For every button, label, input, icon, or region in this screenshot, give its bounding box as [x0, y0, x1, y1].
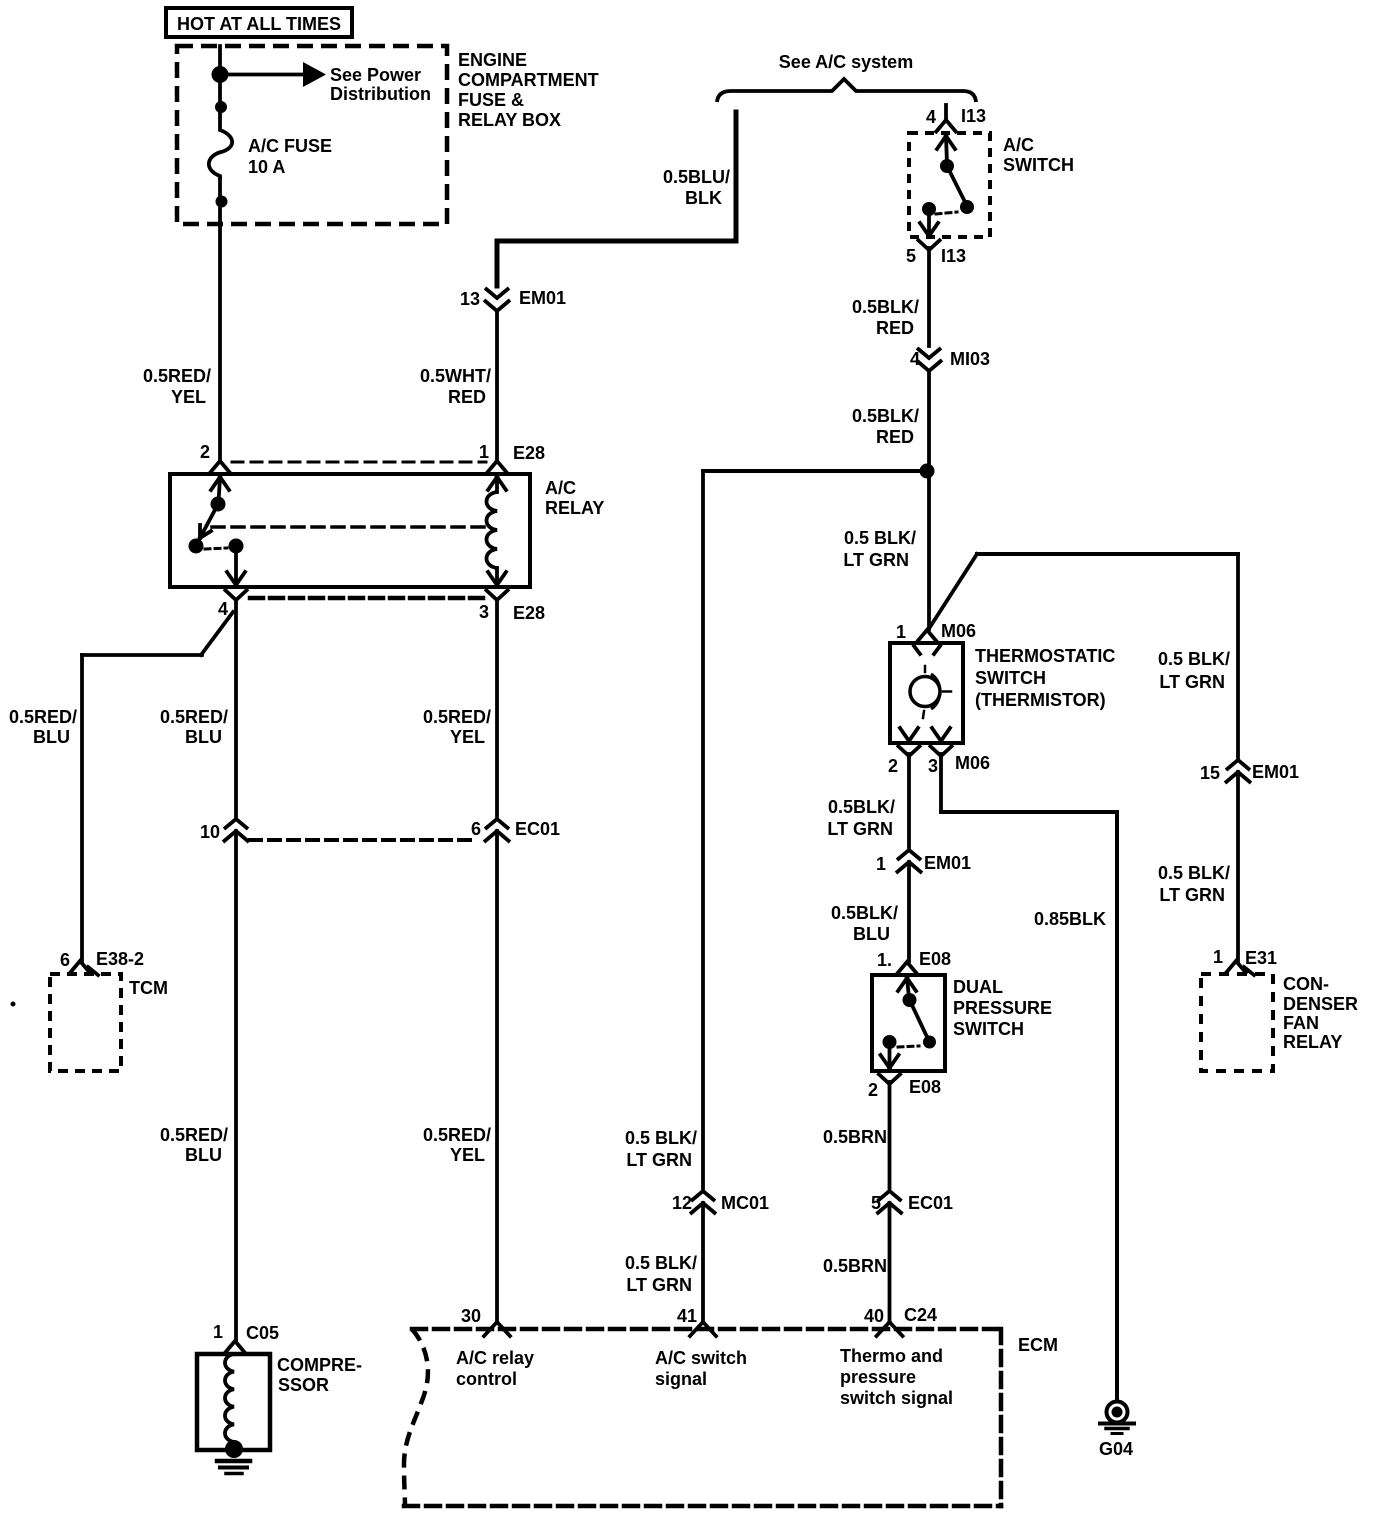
svg-text:30: 30 [461, 1306, 481, 1326]
svg-text:0.5BRN: 0.5BRN [823, 1256, 887, 1276]
svg-text:YEL: YEL [171, 387, 206, 407]
svg-text:4: 4 [218, 599, 228, 619]
svg-text:G04: G04 [1099, 1439, 1133, 1459]
svg-text:0.5 BLK/: 0.5 BLK/ [1158, 863, 1230, 883]
svg-text:0.5RED/: 0.5RED/ [423, 1125, 491, 1145]
svg-text:15: 15 [1200, 763, 1220, 783]
svg-text:E31: E31 [1245, 948, 1277, 968]
relay contact dashed link [205, 548, 227, 549]
svg-text:0.5BLK/: 0.5BLK/ [852, 297, 919, 317]
dashed line pin4-pin3 E28 [250, 596, 484, 601]
label A/C relay control [456, 1348, 534, 1389]
dual pressure switch output dot [883, 1035, 897, 1049]
connector EM01 pin 15 [1200, 760, 1299, 783]
svg-text:MC01: MC01 [721, 1193, 769, 1213]
relay mid dashed line [212, 525, 490, 529]
svg-text:0.5 BLK/: 0.5 BLK/ [1158, 649, 1230, 669]
wire: EC01-6 down to ECM pin 30 [495, 831, 499, 1322]
dashed line pin2-pin1 E28 [232, 461, 486, 464]
svg-text:40: 40 [864, 1306, 884, 1326]
A/C switch contact dashed link [936, 212, 957, 214]
connector EM01 pin 1 [876, 850, 971, 874]
thermostatic switch pin 3 exit [929, 728, 953, 756]
wire: EM01-15 down to E31 [1236, 772, 1240, 961]
svg-text:0.5 BLK/: 0.5 BLK/ [844, 528, 916, 548]
wire: contact to pin 4 [227, 548, 245, 585]
wire: 0.85BLK down to G04 [1115, 812, 1119, 1400]
svg-text:1: 1 [213, 1322, 223, 1342]
connector I13 pin 4 [926, 106, 986, 133]
wire: I13-5 down to MI03 [927, 248, 931, 346]
label wire 0.5BRN (upper) [823, 1127, 887, 1147]
svg-text:2: 2 [200, 442, 210, 462]
wire: bracket to A/C switch pin 4 [944, 105, 948, 121]
svg-text:0.5BLK/: 0.5BLK/ [852, 406, 919, 426]
engine compartment fuse & relay box (dashed) [177, 46, 599, 224]
TCM box (dashed) [50, 974, 168, 1071]
thermostatic switch box [890, 643, 1115, 743]
svg-text:0.5BLK/: 0.5BLK/ [828, 797, 895, 817]
label wire 0.5RED/BLU (TCM branch) [9, 707, 77, 747]
wire: EM01-1 down to E08 [907, 862, 911, 961]
svg-text:EC01: EC01 [908, 1193, 953, 1213]
connector E28 pin 1 (relay) [479, 442, 545, 474]
svg-text:LT GRN: LT GRN [1159, 885, 1225, 905]
svg-text:A/C: A/C [545, 478, 576, 498]
svg-text:4: 4 [926, 107, 936, 127]
svg-text:LT GRN: LT GRN [827, 819, 893, 839]
relay contact fixed dot [189, 539, 204, 554]
A/C switch box (dashed) [909, 133, 1074, 237]
svg-text:1: 1 [479, 442, 489, 462]
label wire 0.5BRN (lower) [823, 1256, 887, 1276]
svg-text:RED: RED [876, 318, 914, 338]
stray mark [11, 1002, 16, 1007]
A/C switch output dot [922, 202, 936, 216]
svg-text:0.85BLK: 0.85BLK [1034, 909, 1106, 929]
wire: hot feed into fuse box [218, 46, 222, 112]
svg-text:LT GRN: LT GRN [626, 1275, 692, 1295]
connector E31 pin 1 [1213, 947, 1277, 975]
label wire 0.5 BLK/LT GRN (CFR upper) [1158, 649, 1230, 692]
connector MC01 pin 12 [672, 1191, 769, 1214]
svg-text:E28: E28 [513, 603, 545, 623]
relay contact arm [200, 477, 229, 538]
node: junction dot above fuse [215, 101, 227, 113]
wire: M06-1 diagonal up-right [930, 554, 977, 627]
svg-text:RELAY: RELAY [545, 498, 604, 518]
label wire 0.85BLK [1034, 909, 1106, 929]
label wire 0.5 BLK/LT GRN (MC01 lower) [625, 1253, 697, 1295]
svg-text:0.5 BLK/: 0.5 BLK/ [625, 1128, 697, 1148]
wire: heavy link from A/C system bracket [497, 112, 736, 286]
relay box A/C RELAY [170, 474, 604, 587]
svg-text:2: 2 [868, 1080, 878, 1100]
label wire 0.5 BLK/LT GRN (to M06) [843, 528, 916, 570]
connector EC01 pin 5 [871, 1191, 953, 1214]
svg-text:LT GRN: LT GRN [626, 1150, 692, 1170]
dual pressure switch box [872, 975, 1052, 1071]
svg-text:4: 4 [910, 349, 920, 369]
svg-text:YEL: YEL [450, 1145, 485, 1165]
svg-text:See A/C system: See A/C system [779, 52, 913, 72]
fuse A/C FUSE 10 A [209, 112, 332, 180]
svg-text:6: 6 [471, 819, 481, 839]
svg-text:0.5RED/: 0.5RED/ [9, 707, 77, 727]
svg-text:PRESSURE: PRESSURE [953, 998, 1052, 1018]
wire: M06-3 down [939, 754, 943, 812]
wire: horizontal to condenser fan relay column [977, 552, 1238, 556]
wire: EC01-5 down to ECM pin 40 [888, 1203, 892, 1322]
wire: MC01 down to ECM pin 41 [701, 1203, 705, 1322]
svg-text:RELAY: RELAY [1283, 1032, 1342, 1052]
connector E08 pin 1 [877, 949, 951, 975]
svg-text:10: 10 [200, 822, 220, 842]
svg-text:5: 5 [906, 246, 916, 266]
wire: DPS output to pin 2 [881, 1044, 899, 1068]
wire: relay pin 3 down [495, 600, 499, 816]
label wire 0.5 BLK/LT GRN (CFR lower) [1158, 863, 1230, 905]
svg-text:MI03: MI03 [950, 349, 990, 369]
wire: relay pin 4 down [234, 600, 238, 816]
svg-text:FAN: FAN [1283, 1013, 1319, 1033]
wire: A/C switch signal down to MC01 [701, 471, 705, 1188]
svg-text:COMPRE-: COMPRE- [277, 1355, 362, 1375]
svg-text:E08: E08 [919, 949, 951, 969]
labels M06 pins 2 and 3 [888, 753, 990, 776]
svg-text:A/C: A/C [1003, 135, 1034, 155]
node: junction dot below fuse [216, 196, 228, 208]
svg-text:signal: signal [655, 1369, 707, 1389]
compressor coil [225, 1354, 234, 1442]
svg-text:A/C relay: A/C relay [456, 1348, 534, 1368]
svg-text:(THERMISTOR): (THERMISTOR) [975, 690, 1106, 710]
svg-text:ECM: ECM [1018, 1335, 1058, 1355]
wire: TCM drop [80, 655, 84, 961]
svg-text:pressure: pressure [840, 1367, 916, 1387]
svg-text:M06: M06 [955, 753, 990, 773]
connector MI03 pin 4 [910, 348, 990, 371]
svg-text:0.5BRN: 0.5BRN [823, 1127, 887, 1147]
svg-text:SWITCH: SWITCH [975, 668, 1046, 688]
svg-text:3: 3 [479, 602, 489, 622]
wire: branch diagonal to TCM [201, 612, 233, 655]
wire: fuse output down to relay pin 2 [218, 178, 222, 462]
svg-text:0.5 BLK/: 0.5 BLK/ [625, 1253, 697, 1273]
svg-text:10 A: 10 A [248, 157, 285, 177]
svg-text:CON-: CON- [1283, 974, 1329, 994]
label wire 0.5 BLK/LT GRN (MC01 upper) [625, 1128, 697, 1170]
svg-text:FUSE &: FUSE & [458, 90, 524, 110]
svg-text:control: control [456, 1369, 517, 1389]
svg-text:M06: M06 [941, 621, 976, 641]
svg-text:BLU: BLU [185, 1145, 222, 1165]
svg-text:6: 6 [60, 950, 70, 970]
svg-text:SWITCH: SWITCH [953, 1019, 1024, 1039]
label wire 0.5RED/BLU (compressor) [160, 707, 228, 747]
label wire 0.5RED/YEL [143, 366, 211, 407]
svg-text:DUAL: DUAL [953, 977, 1003, 997]
connector C05 pin 1 [213, 1322, 279, 1354]
svg-text:SWITCH: SWITCH [1003, 155, 1074, 175]
svg-text:YEL: YEL [450, 727, 485, 747]
connector E08 pin 2 [868, 1073, 941, 1100]
wire: E08-2 down to EC01-5 [888, 1082, 892, 1188]
svg-text:0.5WHT/: 0.5WHT/ [420, 366, 491, 386]
dual pressure switch contact dashed link [898, 1046, 919, 1047]
thermostatic switch pin 2 exit [897, 728, 921, 756]
svg-text:0.5RED/: 0.5RED/ [143, 366, 211, 386]
svg-text:RED: RED [876, 427, 914, 447]
wire: see power distribution arrow [220, 62, 431, 104]
dashed line conn10 to EC01-6 [250, 838, 478, 842]
connector E28 pin 2 (relay) [200, 442, 231, 474]
svg-text:TCM: TCM [129, 978, 168, 998]
ground G04 [1099, 1402, 1134, 1460]
svg-text:1: 1 [896, 622, 906, 642]
svg-text:I13: I13 [961, 106, 986, 126]
svg-text:12: 12 [672, 1193, 692, 1213]
svg-text:0.5RED/: 0.5RED/ [160, 707, 228, 727]
label wire 0.5BLK/LT GRN (M06-2) [827, 797, 895, 839]
connector ECM pin 30 [461, 1306, 510, 1336]
connector EM01 pin 13 [460, 288, 566, 311]
label HOT AT ALL TIMES [166, 8, 352, 37]
svg-text:41: 41 [677, 1306, 697, 1326]
node: junction dot [920, 464, 935, 479]
svg-text:A/C FUSE: A/C FUSE [248, 136, 332, 156]
dual pressure switch contact arm [898, 978, 936, 1049]
svg-text:BLU: BLU [853, 924, 890, 944]
label wire 0.5RED/BLU (lower) [160, 1125, 228, 1165]
wire: switch output to pin 5 [920, 211, 938, 236]
label wire 0.5RED/YEL (mid) [423, 707, 491, 747]
wire: condenser fan relay drop [1236, 554, 1240, 757]
svg-text:EM01: EM01 [1252, 762, 1299, 782]
wire: branch horizontal to TCM [82, 653, 202, 657]
svg-text:BLU: BLU [185, 727, 222, 747]
label See A/C system [779, 52, 913, 72]
svg-text:EM01: EM01 [924, 853, 971, 873]
svg-text:2: 2 [888, 756, 898, 776]
bracket brace (See A/C system) [717, 79, 976, 102]
svg-text:3: 3 [928, 756, 938, 776]
svg-text:0.5BLK/: 0.5BLK/ [831, 903, 898, 923]
node: junction dot at power feed [212, 66, 229, 83]
label wire 0.5BLU/BLK [663, 167, 730, 208]
svg-text:0.5RED/: 0.5RED/ [423, 707, 491, 727]
connector ECM pin 41 [677, 1306, 716, 1336]
thermistor symbol [910, 666, 951, 718]
svg-text:0.5BLU/: 0.5BLU/ [663, 167, 730, 187]
label wire 0.5WHT/RED [420, 366, 491, 407]
A/C switch contact arm [937, 136, 974, 214]
svg-text:See Power: See Power [330, 65, 421, 85]
connector E28 pin 4 (relay) [218, 589, 248, 619]
svg-text:E08: E08 [909, 1077, 941, 1097]
label wire 0.5BLK/RED (lower) [852, 406, 919, 447]
connector 10 (inline) [200, 819, 249, 842]
svg-text:COMPARTMENT: COMPARTMENT [458, 70, 599, 90]
ECM box (dashed) [404, 1329, 1058, 1506]
connector I13 pin 5 [906, 239, 966, 266]
svg-text:SSOR: SSOR [278, 1375, 329, 1395]
wire: MI03 down to junction [927, 371, 931, 471]
svg-text:Thermo and: Thermo and [840, 1346, 943, 1366]
ground (compressor case) [217, 1461, 250, 1474]
label A/C switch signal [655, 1348, 747, 1389]
svg-text:13: 13 [460, 289, 480, 309]
svg-text:A/C switch: A/C switch [655, 1348, 747, 1368]
relay contact output dot [229, 539, 244, 554]
wire: 0.85BLK horizontal [941, 810, 1117, 814]
svg-text:E38-2: E38-2 [96, 949, 144, 969]
svg-text:RELAY BOX: RELAY BOX [458, 110, 561, 130]
label Thermo and pressure switch signal [840, 1346, 953, 1408]
compressor ground dot [225, 1440, 243, 1458]
wire: junction to A/C switch signal (horizontal) [703, 469, 929, 473]
svg-text:1: 1 [876, 854, 886, 874]
label wire 0.5RED/YEL (lower) [423, 1125, 491, 1165]
svg-text:BLK: BLK [685, 188, 722, 208]
relay coil [487, 477, 507, 585]
svg-text:Distribution: Distribution [330, 84, 431, 104]
svg-text:DENSER: DENSER [1283, 994, 1358, 1014]
connector E38-2 pin 6 [60, 949, 144, 975]
wire: M06-2 down [907, 754, 911, 847]
svg-text:BLU: BLU [33, 727, 70, 747]
connector ECM pin 40 C24 [864, 1305, 937, 1336]
svg-text:1.: 1. [877, 950, 892, 970]
svg-text:switch signal: switch signal [840, 1388, 953, 1408]
connector M06 pin 1 [896, 621, 976, 654]
svg-text:EC01: EC01 [515, 819, 560, 839]
svg-text:C05: C05 [246, 1323, 279, 1343]
svg-text:HOT AT ALL TIMES: HOT AT ALL TIMES [177, 14, 341, 34]
svg-text:LT GRN: LT GRN [843, 550, 909, 570]
label wire 0.5BLK/BLU [831, 903, 898, 944]
svg-text:1: 1 [1213, 947, 1223, 967]
svg-text:THERMOSTATIC: THERMOSTATIC [975, 646, 1115, 666]
compressor box [197, 1354, 362, 1450]
label wire 0.5BLK/RED (upper) [852, 297, 919, 338]
svg-text:E28: E28 [513, 443, 545, 463]
svg-text:LT GRN: LT GRN [1159, 672, 1225, 692]
svg-text:RED: RED [448, 387, 486, 407]
condenser fan relay box (dashed) [1201, 974, 1358, 1071]
svg-text:0.5RED/: 0.5RED/ [160, 1125, 228, 1145]
svg-text:I13: I13 [941, 246, 966, 266]
connector E28 pin 3 (relay) [479, 589, 545, 623]
wire: junction down to M06-1 [927, 471, 931, 629]
wire: EM01-13 to relay pin 1 [495, 311, 499, 462]
wire: conn10 down to compressor [234, 831, 238, 1341]
svg-text:C24: C24 [904, 1305, 937, 1325]
connector EC01 pin 6 [471, 819, 560, 842]
svg-text:ENGINE: ENGINE [458, 50, 527, 70]
svg-text:EM01: EM01 [519, 288, 566, 308]
